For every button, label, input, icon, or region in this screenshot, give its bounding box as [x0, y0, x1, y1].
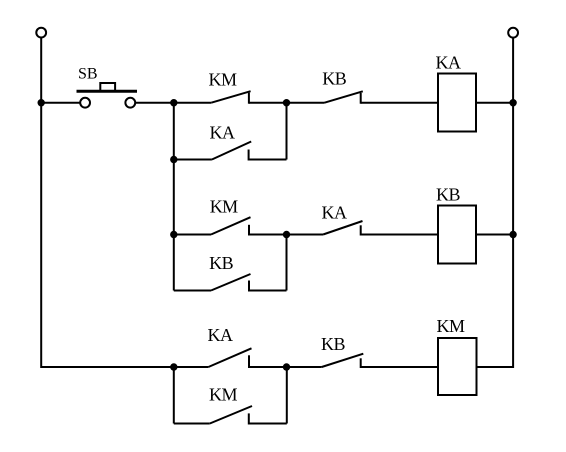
svg-text:KA: KA	[322, 203, 347, 223]
left bus wire rows 1-2	[173, 103, 175, 291]
right rail wire	[477, 38, 514, 367]
junction branch1	[170, 156, 177, 163]
wire branch2 to KB contact	[174, 290, 211, 292]
wire KB to coil KM	[361, 366, 438, 368]
junction row3 left	[170, 363, 177, 370]
svg-text:KA: KA	[436, 53, 461, 73]
contact KB row1	[325, 91, 363, 103]
wire node C to KA contact	[287, 234, 324, 236]
contact KA row2	[323, 221, 362, 236]
contact KM branch3	[210, 406, 252, 425]
svg-text:KB: KB	[209, 253, 233, 273]
svg-text:KA: KA	[210, 123, 235, 143]
right supply terminal	[508, 28, 518, 38]
wire rail to SB	[41, 102, 80, 104]
wire KA to coil KB	[361, 234, 438, 236]
svg-text:KB: KB	[436, 185, 460, 205]
svg-text:KM: KM	[210, 197, 238, 217]
wire KA branch1	[249, 159, 287, 161]
wire node B to KB contact	[287, 102, 325, 104]
junction node C	[283, 231, 290, 238]
left supply terminal	[36, 28, 46, 38]
wire coil KA to right rail	[476, 102, 513, 104]
wire branch3 to KM contact	[174, 423, 210, 425]
svg-text:KM: KM	[209, 385, 237, 405]
coil KB	[438, 206, 476, 264]
pushbutton SB	[77, 83, 138, 108]
junction right rail / row1	[509, 99, 516, 106]
contact KB branch2	[211, 274, 251, 292]
contact KA row3	[208, 348, 251, 368]
wire node D to KB contact	[287, 366, 322, 368]
wire KB branch2	[249, 290, 287, 292]
wire SB to node A	[135, 102, 174, 104]
junction node D	[283, 363, 290, 370]
wire KB to coil KA	[361, 102, 438, 104]
wire row3 left to KA	[174, 366, 209, 368]
coil KA	[438, 74, 476, 132]
wire KM to node C	[249, 234, 287, 236]
svg-text:KA: KA	[208, 325, 233, 345]
contact KM row2	[211, 217, 251, 235]
wire branch2 up to node C	[286, 235, 288, 291]
wire KA to node D	[249, 366, 287, 368]
junction row2 left	[170, 231, 177, 238]
wire KM to node B	[249, 102, 287, 104]
wire branch1 up to node B	[286, 103, 288, 160]
junction node B	[283, 99, 290, 106]
wire coil KB to right rail	[476, 234, 513, 236]
contact KA branch1	[212, 142, 251, 161]
wire row2 left to KM	[174, 234, 211, 236]
svg-text:KM: KM	[437, 316, 465, 336]
contact KB row3	[322, 354, 364, 368]
left bus wire row3 branch	[173, 367, 175, 424]
svg-text:SB: SB	[78, 66, 98, 83]
wire branch3 up to node D	[286, 367, 288, 424]
contact KM row1	[211, 91, 250, 104]
svg-text:KB: KB	[322, 69, 346, 89]
junction left rail / row1	[38, 99, 45, 106]
coil KM	[438, 338, 477, 395]
svg-text:KM: KM	[209, 70, 237, 90]
wire KM branch3	[249, 423, 287, 425]
left rail wire	[41, 38, 174, 367]
svg-text:KB: KB	[321, 334, 345, 354]
junction right rail / row2	[509, 231, 516, 238]
junction node A	[170, 99, 177, 106]
wire branch1 to KA contact	[174, 159, 212, 161]
wire node A to KM contact	[174, 102, 212, 104]
